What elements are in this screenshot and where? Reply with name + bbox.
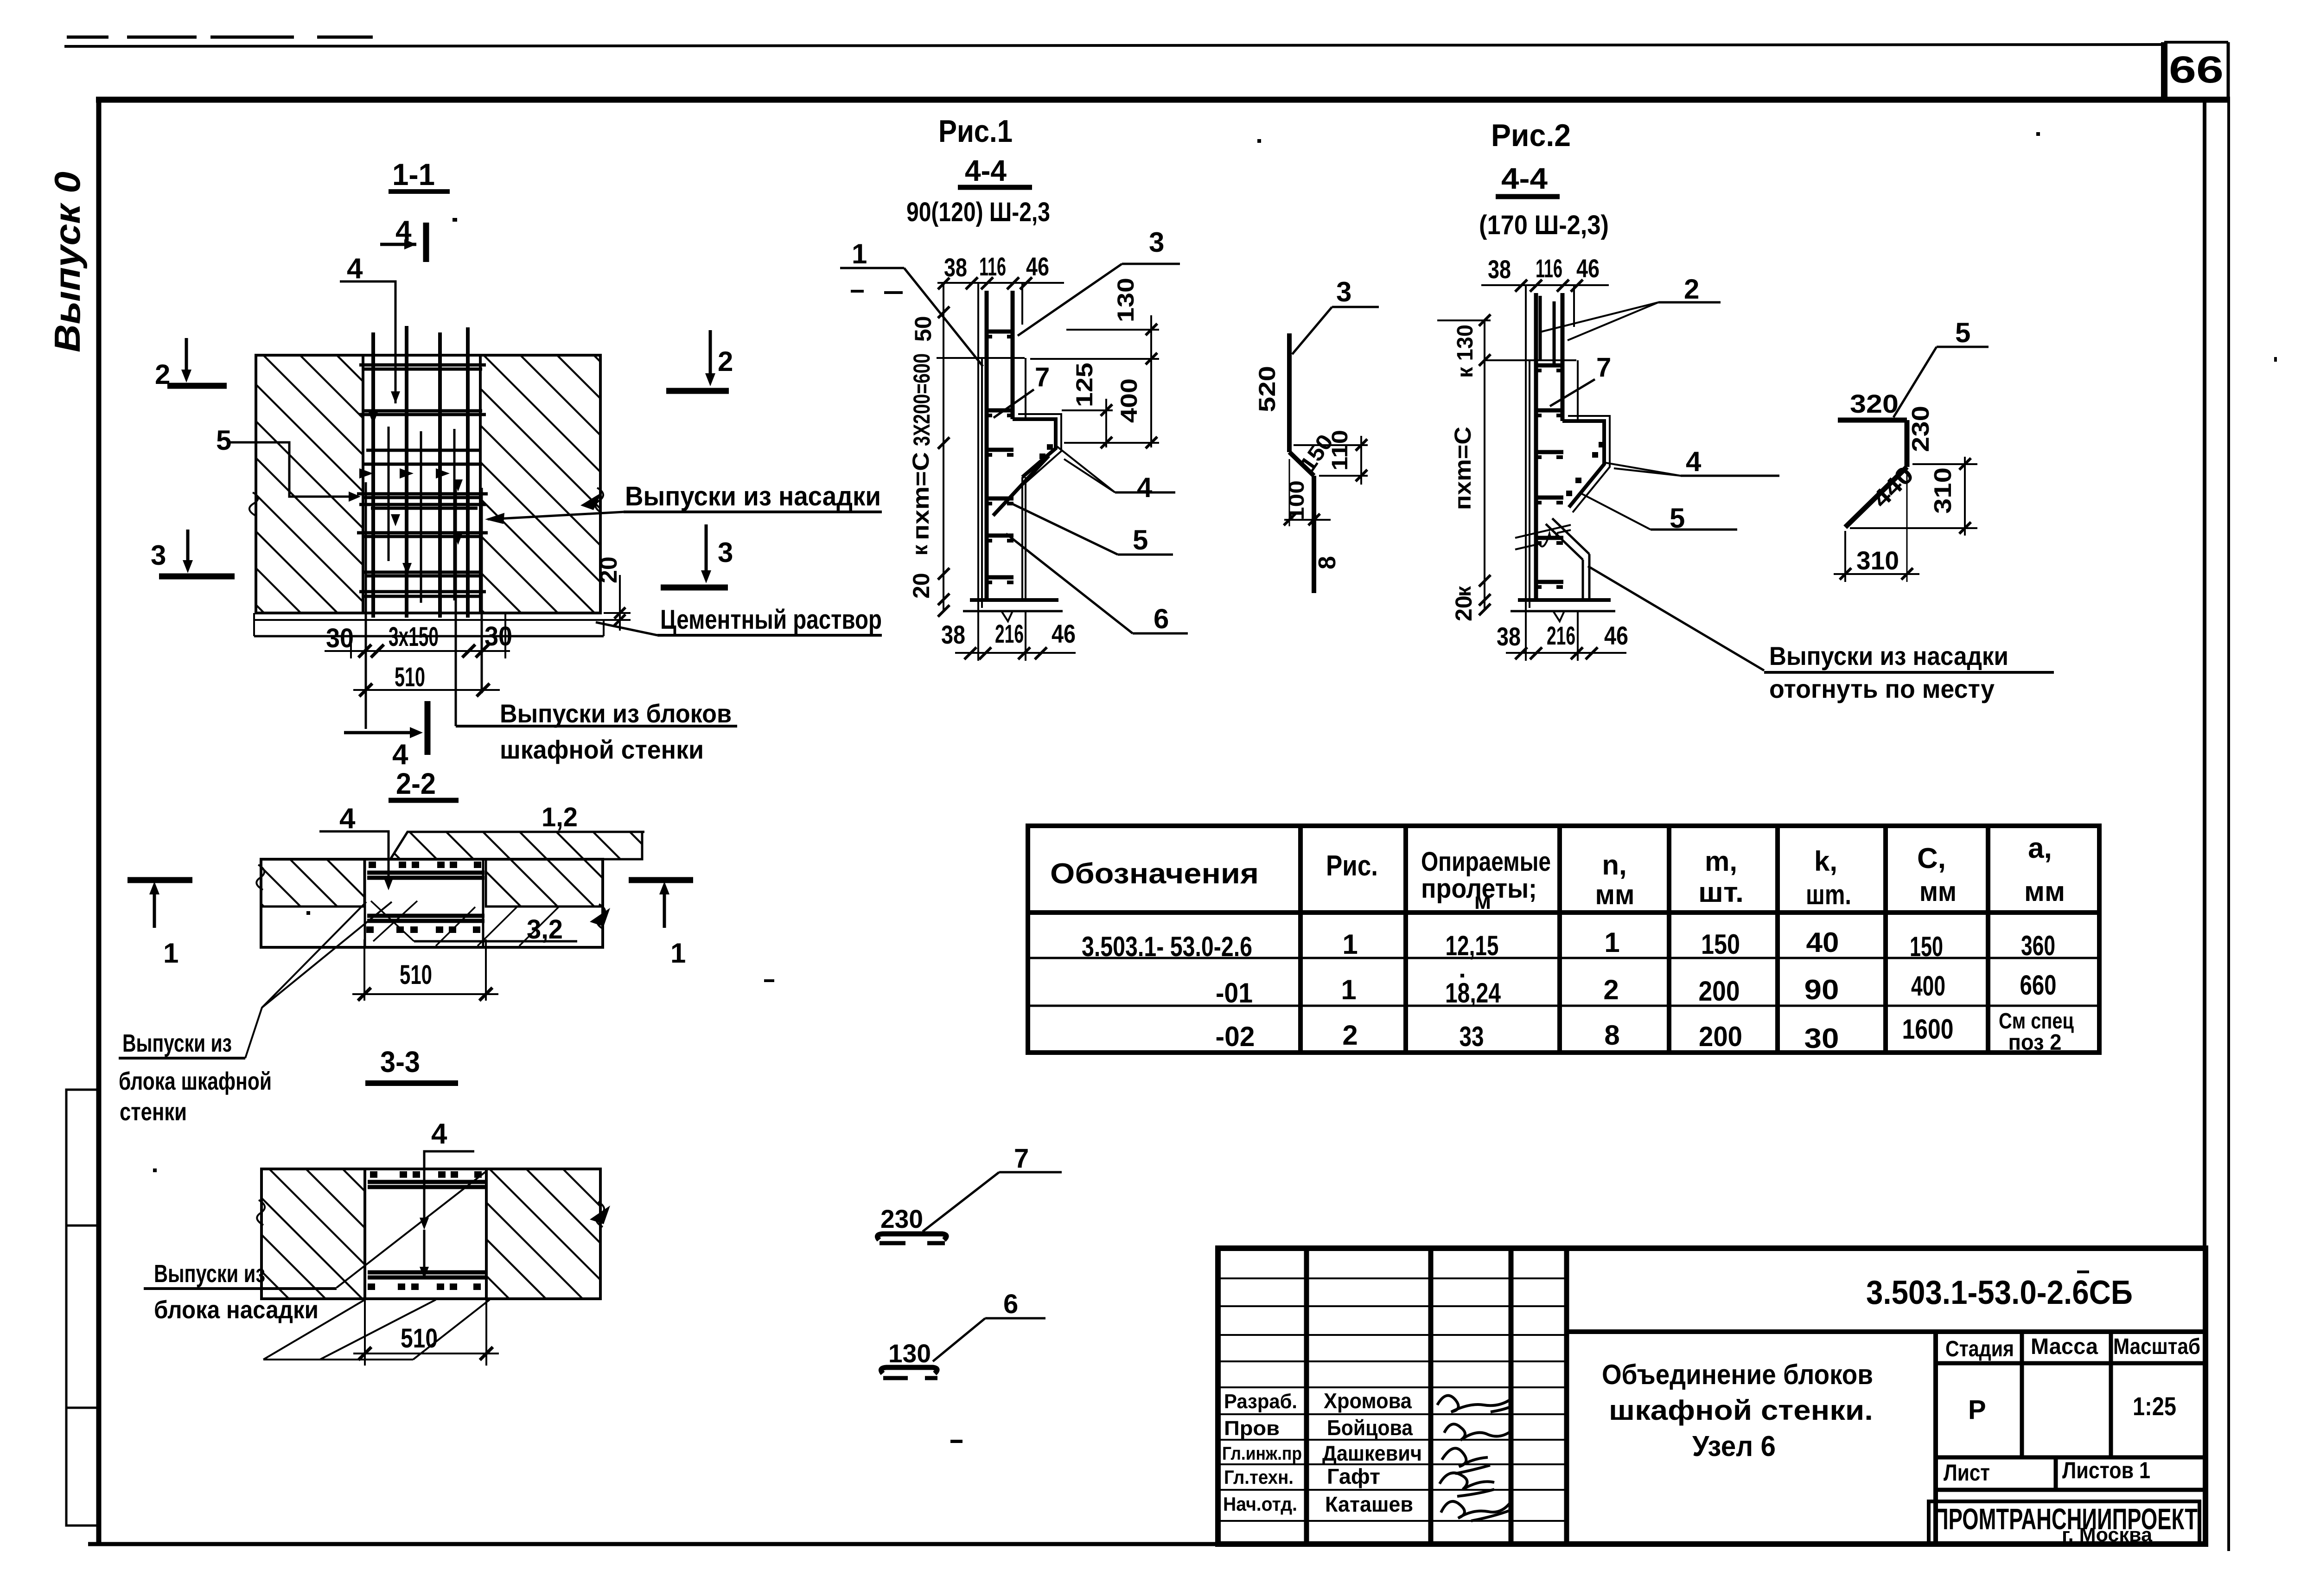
svg-text:3: 3 — [1336, 276, 1351, 307]
svg-text:310: 310 — [1856, 546, 1899, 575]
break marks on block edges — [249, 492, 258, 516]
svg-text:400: 400 — [1116, 378, 1142, 423]
dim 310 right — [1912, 463, 1977, 465]
svg-text:230: 230 — [1907, 406, 1934, 452]
svg-text:(170 Ш-2,3): (170 Ш-2,3) — [1479, 210, 1609, 240]
svg-text:320: 320 — [1850, 389, 1899, 418]
svg-text:360: 360 — [2021, 930, 2055, 961]
svg-text:3: 3 — [1149, 227, 1164, 258]
svg-text:к: к — [908, 544, 932, 555]
svg-text:20: 20 — [595, 556, 622, 583]
svg-text:1-1: 1-1 — [392, 157, 435, 192]
dim 510 — [363, 939, 365, 1001]
svg-text:38: 38 — [1497, 622, 1521, 651]
svg-text:2-2: 2-2 — [396, 767, 436, 800]
top dashed line — [67, 36, 373, 39]
svg-text:поз 2: поз 2 — [2008, 1030, 2062, 1055]
svg-text:18,24: 18,24 — [1445, 977, 1501, 1009]
svg-text:стенки: стенки — [120, 1098, 187, 1126]
break marks — [256, 865, 264, 890]
svg-text:1: 1 — [163, 938, 178, 969]
svg-text:Лист: Лист — [1944, 1460, 1990, 1486]
band left hatched — [261, 1169, 365, 1299]
column verticals — [1526, 285, 1578, 608]
svg-text:1: 1 — [852, 238, 867, 269]
svg-text:мм: мм — [2024, 876, 2065, 907]
svg-text:Стадия: Стадия — [1945, 1337, 2014, 1361]
svg-text:2: 2 — [1684, 274, 1699, 305]
svg-text:Рис.: Рис. — [1326, 850, 1378, 882]
svg-text:к 130: к 130 — [1453, 325, 1478, 378]
svg-text:46: 46 — [1026, 252, 1049, 281]
parallelogram below — [320, 1300, 436, 1360]
svg-text:3X200=600: 3X200=600 — [909, 353, 935, 446]
svg-text:6: 6 — [1154, 603, 1169, 634]
svg-text:Опираемые: Опираемые — [1421, 847, 1551, 877]
bar — [1287, 333, 1292, 452]
svg-text:Выпуски из: Выпуски из — [154, 1260, 265, 1288]
svg-text:1:25: 1:25 — [2133, 1392, 2176, 1421]
console dots — [1039, 453, 1045, 459]
rebar verticals — [373, 326, 468, 618]
svg-text:пxm=C: пxm=C — [908, 452, 934, 540]
svg-text:Р: Р — [1968, 1395, 1986, 1425]
svg-text:5: 5 — [1133, 524, 1148, 555]
main band left hatched — [261, 859, 364, 907]
svg-text:Хромова: Хромова — [1324, 1389, 1412, 1413]
svg-text:125: 125 — [1071, 363, 1097, 407]
svg-text:520: 520 — [1254, 366, 1280, 412]
svg-text:Гл.инж.пр: Гл.инж.пр — [1222, 1443, 1302, 1464]
left vertical dims — [1484, 320, 1485, 610]
band outline — [261, 1169, 600, 1299]
svg-text:Узел 6: Узел 6 — [1692, 1430, 1776, 1462]
block top line — [1485, 359, 1576, 361]
svg-text:Рис.1: Рис.1 — [938, 114, 1013, 149]
svg-text:2: 2 — [1342, 1020, 1358, 1051]
right dims 130 400 125 — [1030, 315, 1159, 447]
svg-text:46: 46 — [1052, 619, 1076, 648]
svg-text:38: 38 — [944, 253, 967, 282]
svg-text:90(120) Ш-2,3: 90(120) Ш-2,3 — [906, 197, 1050, 227]
svg-text:-01: -01 — [1216, 977, 1253, 1009]
hatched block left part — [256, 355, 363, 613]
svg-text:8: 8 — [1604, 1020, 1619, 1051]
svg-text:Бойцова: Бойцова — [1327, 1416, 1413, 1440]
svg-text:4: 4 — [431, 1118, 447, 1150]
svg-text:400: 400 — [1911, 970, 1945, 1002]
svg-text:20: 20 — [1451, 595, 1477, 621]
svg-text:2: 2 — [718, 346, 733, 377]
base plate — [1518, 598, 1611, 602]
svg-text:3x150: 3x150 — [389, 622, 439, 652]
bent bar going down-right — [1552, 518, 1589, 554]
right outer border — [2227, 100, 2230, 1551]
svg-text:3-3: 3-3 — [380, 1045, 420, 1079]
svg-text:100: 100 — [1284, 480, 1308, 520]
svg-text:3,2: 3,2 — [527, 914, 563, 945]
svg-text:30: 30 — [1804, 1023, 1839, 1054]
svg-text:Выпуск 0: Выпуск 0 — [47, 172, 88, 352]
step-out console — [1013, 419, 1056, 477]
marker 1 right — [663, 887, 666, 928]
svg-text:1: 1 — [1341, 974, 1356, 1005]
bar — [1838, 418, 1907, 423]
svg-text:4-4: 4-4 — [965, 154, 1007, 187]
svg-text:20: 20 — [908, 573, 934, 599]
svg-text:блока насадки: блока насадки — [154, 1296, 319, 1324]
band right hatched — [486, 1169, 600, 1299]
svg-text:блока шкафной: блока шкафной — [119, 1067, 272, 1095]
left attachment boxes — [66, 1090, 99, 1526]
svg-text:150: 150 — [1910, 931, 1943, 962]
svg-text:8: 8 — [1314, 556, 1341, 569]
svg-text:5: 5 — [1955, 317, 1970, 348]
tie bars — [986, 332, 1013, 577]
svg-text:4: 4 — [339, 803, 356, 835]
svg-text:Дашкевич: Дашкевич — [1322, 1441, 1422, 1465]
svg-text:46: 46 — [1576, 254, 1600, 283]
main band right hatched — [486, 859, 603, 907]
svg-text:4-4: 4-4 — [1501, 162, 1548, 195]
svg-text:мм: мм — [1919, 876, 1957, 907]
svg-text:Гл.техн.: Гл.техн. — [1224, 1466, 1294, 1488]
svg-text:Рис.2: Рис.2 — [1491, 118, 1571, 153]
leader to bottom text — [1588, 566, 1764, 670]
svg-text:150: 150 — [1701, 929, 1740, 960]
svg-text:230: 230 — [880, 1204, 923, 1233]
svg-text:40: 40 — [1806, 927, 1839, 958]
svg-text:1: 1 — [670, 938, 686, 969]
svg-text:Объединение блоков: Объединение блоков — [1602, 1359, 1873, 1390]
svg-text:130: 130 — [1113, 278, 1139, 322]
svg-text:пxm=C: пxm=C — [1450, 427, 1476, 510]
svg-text:шm.: шm. — [1806, 879, 1851, 910]
band outline — [261, 859, 603, 947]
svg-text:30: 30 — [484, 621, 512, 651]
break marks — [257, 1200, 265, 1225]
dims 110 150 100 — [1294, 444, 1368, 446]
rebar horizontals — [357, 365, 488, 596]
svg-text:4: 4 — [392, 739, 408, 771]
svg-text:5: 5 — [216, 425, 231, 456]
svg-text:6: 6 — [1003, 1289, 1018, 1319]
svg-text:Выпуски из блоков: Выпуски из блоков — [500, 699, 732, 728]
svg-text:510: 510 — [395, 662, 425, 692]
svg-text:1,2: 1,2 — [542, 802, 578, 832]
svg-text:Пров: Пров — [1224, 1417, 1280, 1440]
svg-text:n,: n, — [1602, 849, 1626, 881]
lower block strip — [254, 635, 604, 638]
svg-text:510: 510 — [401, 1323, 438, 1353]
svg-text:216: 216 — [995, 619, 1024, 648]
svg-text:7: 7 — [1035, 362, 1050, 392]
top thin rule — [64, 45, 2164, 46]
svg-text:C,: C, — [1917, 843, 1946, 875]
svg-text:116: 116 — [1536, 254, 1562, 283]
svg-text:38: 38 — [1488, 255, 1511, 284]
svg-text:7: 7 — [1014, 1143, 1029, 1174]
svg-text:1600: 1600 — [1902, 1014, 1954, 1045]
svg-text:310: 310 — [1930, 467, 1957, 514]
svg-text:2: 2 — [1603, 974, 1619, 1005]
svg-text:мм: мм — [1595, 879, 1635, 910]
svg-text:Выпуски из насадки: Выпуски из насадки — [625, 481, 881, 511]
dim 310 bottom — [1844, 531, 1846, 582]
svg-text:30: 30 — [326, 623, 354, 653]
svg-text:216: 216 — [1547, 621, 1575, 650]
svg-text:Масса: Масса — [2031, 1334, 2098, 1359]
svg-text:шкафной стенки: шкафной стенки — [500, 735, 704, 764]
svg-text:3.503.1- 53.0-2.6: 3.503.1- 53.0-2.6 — [1082, 931, 1252, 962]
svg-text:200: 200 — [1699, 976, 1740, 1007]
svg-text:3.503.1-53.0-2.6СБ: 3.503.1-53.0-2.6СБ — [1866, 1274, 2133, 1311]
block outline — [256, 355, 600, 613]
svg-text:Листов 1: Листов 1 — [2062, 1457, 2150, 1483]
svg-text:Выпуски из насадки: Выпуски из насадки — [1769, 641, 2008, 670]
svg-text:1: 1 — [1342, 929, 1358, 960]
svg-text:50: 50 — [910, 316, 936, 342]
svg-text:7: 7 — [1596, 352, 1611, 383]
svg-text:Гафт: Гафт — [1327, 1464, 1380, 1488]
svg-text:отогнуть по месту: отогнуть по месту — [1769, 674, 1995, 703]
svg-text:4: 4 — [347, 253, 363, 285]
svg-text:3: 3 — [718, 537, 733, 568]
svg-text:Цементный раствор: Цементный раствор — [660, 605, 882, 635]
svg-text:46: 46 — [1604, 621, 1628, 650]
svg-text:к: к — [1451, 586, 1475, 597]
signatures — [1437, 1396, 1511, 1521]
svg-text:33: 33 — [1460, 1021, 1484, 1052]
main frame left border — [96, 97, 102, 1545]
svg-text:Нач.отд.: Нач.отд. — [1223, 1493, 1297, 1515]
svg-text:Обозначения: Обозначения — [1050, 858, 1259, 890]
svg-text:k,: k, — [1814, 846, 1837, 877]
hatched block right part — [480, 355, 600, 613]
page number box — [2164, 42, 2228, 100]
tie bars — [1535, 365, 1563, 582]
dim 20 right — [604, 612, 631, 614]
svg-text:66: 66 — [2169, 49, 2224, 91]
leader from text up through block — [337, 1171, 487, 1288]
svg-text:4: 4 — [1137, 472, 1153, 503]
console dots — [1592, 452, 1598, 458]
mortar strip 20 — [254, 619, 604, 621]
svg-text:12,15: 12,15 — [1446, 930, 1499, 961]
joint rebar 3-3 — [368, 1171, 482, 1290]
svg-text:90: 90 — [1804, 974, 1839, 1005]
svg-text:116: 116 — [979, 252, 1006, 281]
scan specks — [153, 132, 2277, 1443]
dim 510 — [364, 1299, 366, 1366]
upper strip (block 1,2) — [390, 832, 642, 859]
svg-text:Выпуски из: Выпуски из — [122, 1029, 232, 1057]
left vertical dims — [943, 284, 944, 612]
svg-text:a,: a, — [2028, 832, 2052, 864]
small arrows in grid — [359, 412, 463, 575]
diagonal brace bar 5 — [993, 456, 1049, 516]
svg-text:4: 4 — [1686, 446, 1702, 477]
svg-text:-02: -02 — [1216, 1021, 1255, 1052]
svg-text:660: 660 — [2020, 970, 2057, 1001]
svg-text:м: м — [1474, 888, 1492, 914]
block top line — [937, 357, 1025, 359]
main frame top border — [96, 97, 2230, 103]
svg-text:200: 200 — [1699, 1021, 1742, 1052]
break marks mid-column — [1515, 525, 1571, 538]
marker 1 left — [153, 887, 156, 928]
step-out console — [1562, 421, 1604, 507]
svg-text:шкафной стенки.: шкафной стенки. — [1609, 1395, 1873, 1426]
top rebar stubs — [1539, 296, 1542, 359]
svg-text:38: 38 — [941, 620, 965, 649]
svg-text:510: 510 — [400, 960, 432, 990]
svg-text:1: 1 — [1604, 927, 1619, 958]
main frame bottom border — [88, 1542, 2208, 1546]
bottom section mark 4-4 — [344, 731, 417, 734]
svg-text:m,: m, — [1705, 846, 1737, 877]
svg-text:130: 130 — [888, 1339, 931, 1368]
base plate — [970, 598, 1058, 602]
right section lines — [1567, 1329, 2205, 1334]
column verticals — [978, 283, 1026, 608]
svg-text:шт.: шт. — [1698, 877, 1744, 908]
svg-text:Каташев: Каташев — [1325, 1492, 1413, 1516]
right inner border — [2203, 100, 2206, 1544]
joint rebar 2-2 — [366, 862, 481, 933]
svg-text:3: 3 — [151, 540, 166, 571]
svg-text:Разраб.: Разраб. — [1224, 1390, 1297, 1413]
svg-text:Масштаб: Масштаб — [2113, 1334, 2200, 1359]
bottom dims — [325, 613, 510, 658]
